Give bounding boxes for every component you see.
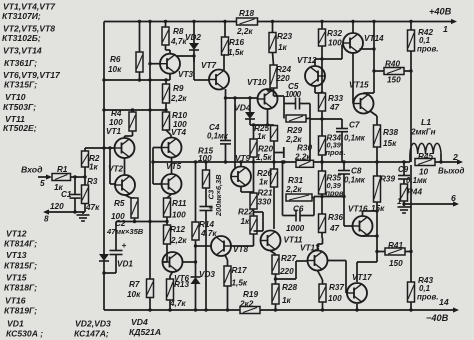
svg-text:R39: R39 <box>380 175 395 184</box>
wire mid bus <box>148 20 151 279</box>
svg-text:47: 47 <box>329 103 340 112</box>
svg-text:120: 120 <box>50 202 64 211</box>
capacitor C2 <box>102 219 143 275</box>
svg-text:КС147А;: КС147А; <box>74 329 109 339</box>
transistor VT15 <box>349 81 374 114</box>
svg-text:R37: R37 <box>329 283 344 292</box>
svg-text:100: 100 <box>109 118 123 127</box>
svg-text:С9: С9 <box>398 165 409 174</box>
svg-text:0,1мк: 0,1мк <box>344 134 366 143</box>
wire VT17 emitter <box>355 304 358 312</box>
wire feedback line 2 <box>296 160 410 163</box>
svg-text:R19: R19 <box>243 290 258 299</box>
svg-text:100: 100 <box>198 154 212 163</box>
wire emitter line VT3 <box>102 78 166 81</box>
resistor R38 <box>374 125 399 162</box>
wire <box>165 103 167 112</box>
capacitor C7 <box>336 119 366 162</box>
svg-text:0,1мк: 0,1мк <box>406 176 428 185</box>
svg-text:47: 47 <box>329 224 340 233</box>
svg-text:2,2к: 2,2к <box>236 27 253 36</box>
resistor R5 <box>111 195 138 221</box>
capacitor C3 <box>200 174 224 312</box>
resistor R20 <box>250 125 273 164</box>
svg-text:R6: R6 <box>110 55 121 64</box>
wire VT12 <box>315 59 324 95</box>
wire top line R4 R10 <box>102 108 167 111</box>
svg-text:1: 1 <box>397 197 401 206</box>
svg-text:VT16: VT16 <box>5 296 26 306</box>
svg-text:КД521А: КД521А <box>129 327 161 337</box>
svg-text:VD4: VD4 <box>234 103 251 113</box>
transistor VT17 <box>347 273 372 303</box>
svg-text:КТ815Г;: КТ815Г; <box>4 261 37 271</box>
inductor L1 <box>410 117 443 164</box>
svg-text:6: 6 <box>451 193 456 203</box>
svg-text:R4: R4 <box>111 109 122 118</box>
svg-text:220: 220 <box>279 267 294 276</box>
wire output <box>435 152 464 176</box>
svg-text:VT6,VT9,VT17: VT6,VT9,VT17 <box>3 70 61 80</box>
resistor R23 <box>269 20 292 53</box>
svg-text:R29: R29 <box>287 126 302 135</box>
resistor R7 <box>127 279 154 312</box>
resistor R13 <box>167 272 190 312</box>
resistor R42 <box>408 20 439 54</box>
svg-text:С6: С6 <box>293 205 304 214</box>
svg-text:R7: R7 <box>129 280 140 289</box>
wire R8 top <box>164 20 167 27</box>
resistor R3 <box>82 177 101 212</box>
wire VT8 base <box>231 234 254 246</box>
resistor R22 <box>238 208 257 235</box>
resistor R17 <box>224 266 248 312</box>
transistor VT13 <box>300 244 328 271</box>
resistor R6 <box>108 52 143 74</box>
wire VT16 emitter <box>363 234 379 237</box>
svg-text:VD3: VD3 <box>199 270 215 279</box>
+40V rail <box>104 7 457 35</box>
wire VT3 collector <box>177 54 196 62</box>
wire <box>320 46 323 93</box>
svg-text:1к: 1к <box>89 163 99 172</box>
wire comp line <box>310 118 342 120</box>
svg-text:R5: R5 <box>114 199 125 208</box>
svg-text:4,7к: 4,7к <box>169 299 186 308</box>
svg-text:VT3: VT3 <box>178 70 193 79</box>
svg-text:−40В: −40В <box>426 313 449 323</box>
svg-text:14: 14 <box>439 297 449 307</box>
wire base bus <box>151 148 154 185</box>
svg-text:пров.: пров. <box>417 45 438 54</box>
svg-text:R40: R40 <box>385 60 400 69</box>
resistor R35 <box>319 162 346 198</box>
wire base VT1 <box>85 146 114 149</box>
svg-text:R21: R21 <box>258 189 273 198</box>
svg-text:2,2к: 2,2к <box>170 94 187 103</box>
resistor R40 <box>372 60 411 85</box>
capacitor C4 <box>220 98 231 162</box>
resistor R25 <box>254 124 278 164</box>
resistor R27 <box>272 254 296 276</box>
svg-text:С8: С8 <box>351 167 362 176</box>
svg-text:1000: 1000 <box>286 224 305 233</box>
resistor R32 <box>319 20 343 48</box>
wire VT10 collector <box>268 88 274 91</box>
resistor R15 <box>198 147 213 189</box>
svg-text:VD1: VD1 <box>7 319 24 329</box>
wire VT9 base bus <box>234 98 236 169</box>
capacitor C6 <box>283 198 315 234</box>
capacitor C8 <box>338 162 366 197</box>
svg-text:R9: R9 <box>173 84 184 93</box>
resistor R30 <box>294 144 314 168</box>
svg-text:R31: R31 <box>288 176 303 185</box>
svg-text:47мк×35В: 47мк×35В <box>106 227 144 236</box>
resistor R36 <box>319 197 344 239</box>
svg-text:R22: R22 <box>238 208 253 217</box>
wire <box>166 130 171 138</box>
wire VT12 base line <box>315 44 344 59</box>
svg-text:100: 100 <box>328 39 342 48</box>
parts list top-left <box>2 2 61 134</box>
wire lower comp line <box>314 195 346 198</box>
svg-text:330: 330 <box>258 198 272 207</box>
resistor R33 <box>319 93 344 112</box>
svg-text:4,7к: 4,7к <box>200 229 217 238</box>
transistor VT3 <box>160 54 193 79</box>
svg-text:VT1: VT1 <box>106 127 121 136</box>
svg-text:+: + <box>122 241 127 250</box>
wire VD2 to VT7 <box>193 50 195 80</box>
svg-text:VT2: VT2 <box>108 165 123 174</box>
wire VT9 collector <box>240 162 242 167</box>
resistor R37 <box>319 283 344 312</box>
svg-text:47к: 47к <box>85 203 100 212</box>
svg-text:VT3,VT14: VT3,VT14 <box>3 46 42 56</box>
transistor VT7 <box>201 61 229 90</box>
svg-text:1к: 1к <box>241 217 251 226</box>
wire VT4 base <box>153 147 162 149</box>
svg-text:1000: 1000 <box>285 90 302 99</box>
resistor R29 <box>284 104 310 145</box>
wire VT3 base <box>148 62 160 65</box>
svg-text:КТ361Г;: КТ361Г; <box>4 58 37 68</box>
resistor R26 <box>257 162 278 187</box>
wire R6 bottom <box>139 72 141 80</box>
wire VT17 base <box>328 261 347 294</box>
svg-text:VD4: VD4 <box>131 317 148 327</box>
svg-text:R33: R33 <box>328 94 343 103</box>
input Vhod <box>21 165 52 189</box>
svg-text:2к2: 2к2 <box>239 300 254 309</box>
svg-text:150: 150 <box>389 259 403 268</box>
svg-text:150: 150 <box>387 76 401 85</box>
svg-text:КТ503Г;: КТ503Г; <box>3 102 36 112</box>
svg-text:КС530А ;: КС530А ; <box>6 329 43 339</box>
wire VT9 emitter <box>241 187 254 193</box>
svg-text:VT8: VT8 <box>233 245 248 254</box>
capacitor C5 <box>274 82 311 110</box>
svg-text:R45: R45 <box>418 152 433 161</box>
svg-text:VT10: VT10 <box>5 92 26 102</box>
wire output bus <box>409 51 412 282</box>
transistor VT16 <box>348 205 373 237</box>
svg-text:КТ315Г;: КТ315Г; <box>4 80 37 90</box>
resistor R34 <box>319 134 346 164</box>
svg-text:С1: С1 <box>61 190 72 199</box>
svg-text:10к: 10к <box>108 65 122 74</box>
transistor VT4 <box>162 128 187 158</box>
svg-text:2,2к: 2,2к <box>170 236 187 245</box>
parts list bottom-left <box>4 229 43 339</box>
svg-text:2: 2 <box>452 152 458 162</box>
resistor R19 <box>239 290 260 314</box>
svg-text:5: 5 <box>40 179 45 188</box>
wire VT4-VT5 <box>171 158 173 175</box>
svg-text:R16: R16 <box>229 38 244 47</box>
svg-text:VT16: VT16 <box>348 205 368 214</box>
transistor VT2 <box>108 165 135 196</box>
svg-text:R17: R17 <box>232 266 247 275</box>
svg-text:200мк×6,3В: 200мк×6,3В <box>214 174 223 217</box>
svg-text:L1: L1 <box>421 117 431 127</box>
wire tail line <box>116 217 169 223</box>
svg-text:8: 8 <box>44 215 49 224</box>
wire VT15 emitter <box>370 111 377 125</box>
wire VT7 collector line <box>224 89 258 100</box>
svg-text:R32: R32 <box>327 29 342 38</box>
resistor R39 <box>371 162 395 262</box>
svg-text:R11: R11 <box>172 199 187 208</box>
svg-text:1к: 1к <box>257 132 267 141</box>
wire VT16 collector <box>363 209 379 216</box>
resistor R43 <box>408 276 439 312</box>
svg-text:VT9: VT9 <box>235 154 250 163</box>
resistor R18 <box>236 9 258 36</box>
svg-text:R36: R36 <box>328 213 343 222</box>
svg-text:1,5к: 1,5к <box>256 153 272 162</box>
wire VT5 base <box>153 183 162 185</box>
transistor VT11 <box>261 231 303 251</box>
svg-text:10к: 10к <box>127 290 141 299</box>
resistor R9 <box>163 80 188 103</box>
capacitor C9 <box>398 162 428 185</box>
svg-text:R12: R12 <box>170 225 185 234</box>
wire VT1 collector <box>125 131 133 138</box>
resistor R45 <box>415 152 435 177</box>
svg-text:КТ502Е;: КТ502Е; <box>3 123 37 133</box>
diode VD2 <box>185 20 201 50</box>
svg-text:R10: R10 <box>172 111 187 120</box>
svg-text:R13: R13 <box>174 280 189 289</box>
wire VT10 emitter <box>250 109 274 127</box>
wire <box>308 119 311 164</box>
svg-text:VT12: VT12 <box>6 229 27 239</box>
wire pin 6 <box>404 193 459 207</box>
ground line 8 <box>43 209 85 223</box>
svg-text:1,5к: 1,5к <box>232 279 248 288</box>
wire VT14 emitter <box>360 47 376 50</box>
svg-text:VD1: VD1 <box>117 260 133 269</box>
wire VT3 emitter <box>164 74 170 82</box>
resistor R1 <box>52 165 71 192</box>
svg-text:1к: 1к <box>282 296 292 305</box>
resistor R11 <box>164 194 187 220</box>
ground output <box>398 202 411 213</box>
wire R22 bypass <box>254 212 264 231</box>
svg-text:VT13: VT13 <box>6 250 27 260</box>
svg-text:VD2,VD3: VD2,VD3 <box>75 319 111 329</box>
resistor R16 <box>222 20 245 57</box>
transistor VT1 <box>106 127 135 158</box>
svg-text:Вход: Вход <box>21 165 43 175</box>
resistor R4 <box>109 109 136 131</box>
transistor VT6 <box>163 252 190 283</box>
wire VT6 base <box>163 244 168 262</box>
svg-text:КТ3107И;: КТ3107И; <box>2 11 41 21</box>
svg-text:VD2: VD2 <box>185 33 201 42</box>
svg-text:1,5к: 1,5к <box>228 48 244 57</box>
svg-text:VT17: VT17 <box>352 273 372 282</box>
svg-text:R28: R28 <box>282 283 297 292</box>
svg-text:VT2,VT5,VT8: VT2,VT5,VT8 <box>3 24 55 34</box>
wire VT7 emitter <box>224 55 225 70</box>
wire VT14 collector <box>351 20 354 33</box>
diode VD4 <box>234 98 255 125</box>
svg-text:VT7: VT7 <box>201 61 216 70</box>
svg-text:2,2к: 2,2к <box>285 185 302 194</box>
svg-text:R27: R27 <box>281 254 296 263</box>
resistor R8 <box>162 27 187 46</box>
wire VT14-VT15 <box>352 53 355 104</box>
-40V rail <box>104 297 459 323</box>
svg-text:R38: R38 <box>383 128 398 137</box>
svg-text:0,1мк: 0,1мк <box>344 176 366 185</box>
svg-text:VT12: VT12 <box>297 56 317 65</box>
wire <box>320 111 323 136</box>
resistor R2 <box>82 148 100 177</box>
resistor R41 <box>375 241 411 268</box>
wire VT2 base <box>110 183 115 185</box>
svg-text:2мкГн: 2мкГн <box>410 128 436 137</box>
wire to VT17 <box>357 262 377 282</box>
wire left bus <box>103 22 105 256</box>
svg-text:R18: R18 <box>239 9 254 18</box>
svg-text:VT1,VT4,VT7: VT1,VT4,VT7 <box>3 2 56 12</box>
svg-text:+: + <box>209 204 214 213</box>
svg-text:1к: 1к <box>259 178 269 187</box>
svg-text:R1: R1 <box>57 165 68 174</box>
resistor R24 <box>270 53 291 89</box>
wire stub tap <box>274 147 284 158</box>
wire VT8 left <box>194 244 211 247</box>
svg-text:2,2к: 2,2к <box>294 153 311 162</box>
svg-text:R24: R24 <box>276 65 291 74</box>
svg-text:пров.: пров. <box>417 293 438 302</box>
wire right bus top <box>364 20 376 94</box>
svg-text:+40В: +40В <box>429 7 452 17</box>
resistor R12 <box>164 222 188 246</box>
wire <box>71 175 87 178</box>
resistor R21 <box>250 162 273 209</box>
svg-text:КТ3102Б;: КТ3102Б; <box>2 33 41 43</box>
svg-text:15к: 15к <box>383 139 397 148</box>
svg-text:VT5: VT5 <box>166 162 181 171</box>
svg-text:Выход: Выход <box>438 167 464 176</box>
svg-text:VT10: VT10 <box>247 78 267 87</box>
wire VT11 emitter <box>271 251 276 255</box>
wire VT11 base <box>273 187 275 229</box>
wire <box>274 274 277 284</box>
svg-text:С7: С7 <box>349 121 360 130</box>
svg-text:1: 1 <box>443 24 448 34</box>
svg-text:VT4: VT4 <box>171 128 186 137</box>
svg-text:R44: R44 <box>407 188 422 197</box>
svg-text:КТ818Г;: КТ818Г; <box>4 283 37 293</box>
transistor VT10 <box>247 78 278 109</box>
wire R6 top <box>138 20 141 52</box>
wire <box>166 45 171 54</box>
wire VT8 emitter <box>225 255 228 266</box>
zener VD1 <box>99 254 133 310</box>
capacitor C1 <box>50 177 81 212</box>
svg-text:100: 100 <box>328 294 342 303</box>
parts list bottom-middle <box>74 317 161 339</box>
svg-text:КТ814Г;: КТ814Г; <box>4 239 37 249</box>
wire VT7 base <box>194 79 209 81</box>
svg-text:КТ819Г;: КТ819Г; <box>4 306 37 316</box>
svg-text:100: 100 <box>172 211 186 220</box>
svg-text:VT15: VT15 <box>349 81 369 90</box>
transistor VT12 <box>297 56 325 86</box>
resistor R14 <box>192 162 217 240</box>
svg-text:1к: 1к <box>278 43 288 52</box>
resistor R10 <box>163 111 188 130</box>
wire VT1-VT2 <box>108 146 124 184</box>
resistor R28 <box>272 283 297 312</box>
svg-text:VT15: VT15 <box>6 273 27 283</box>
resistor R31 <box>281 160 314 215</box>
svg-text:R23: R23 <box>277 32 292 41</box>
transistor VT5 <box>162 162 182 194</box>
wire feedback line <box>153 160 296 163</box>
wire VT16 base <box>344 197 353 227</box>
wire VD3 node <box>183 240 198 277</box>
diode VD3 <box>191 270 216 312</box>
ground <box>77 212 90 221</box>
svg-text:R3: R3 <box>87 177 98 186</box>
capacitor C4 label <box>207 123 229 141</box>
wire VT13 collector <box>318 238 323 251</box>
wire VT13 emitter <box>318 271 323 285</box>
resistor R44 <box>397 179 422 206</box>
wire VT13 base <box>276 261 308 279</box>
transistor VT14 <box>343 33 384 53</box>
svg-text:R30: R30 <box>297 144 312 153</box>
svg-text:R41: R41 <box>388 241 403 250</box>
transistor VT8 <box>211 236 248 256</box>
svg-text:R8: R8 <box>173 27 184 36</box>
transistor VT9 <box>231 154 251 187</box>
